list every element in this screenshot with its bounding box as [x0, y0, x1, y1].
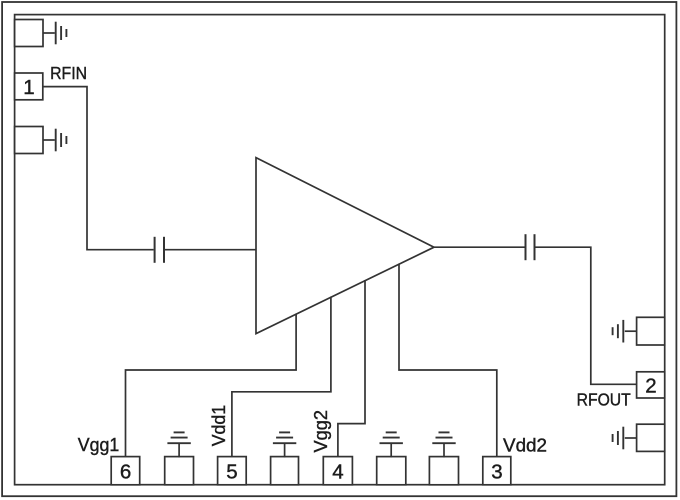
svg-text:3: 3 — [491, 460, 502, 483]
ground pad bottom 1 — [165, 457, 194, 485]
ground symbol (left-pointing) for upper-right pad — [613, 320, 624, 343]
pad 2 (RFOUT pin) — [637, 372, 665, 398]
wire amplifier output to capacitor C2 — [434, 246, 525, 248]
ground symbol (right-pointing) for top-left pad — [56, 22, 67, 45]
pad 6 (Vgg1 pin) — [111, 457, 140, 485]
svg-text:Vgg1: Vgg1 — [78, 435, 120, 455]
ground symbol above bottom pad 4 — [432, 432, 455, 457]
ground symbol above bottom pad 2 — [273, 432, 296, 457]
capacitor C1 (input DC block) — [155, 237, 164, 263]
ground pad mid-left — [15, 127, 55, 154]
capacitor C2 (output DC block) — [526, 234, 535, 260]
svg-text:Vdd2: Vdd2 — [503, 436, 547, 456]
wire capacitor C2 to pad 2 — [536, 247, 637, 384]
wire amplifier bias to pad 4 — [338, 280, 365, 457]
svg-text:1: 1 — [23, 76, 34, 99]
svg-text:2: 2 — [645, 374, 656, 397]
ground pad bottom 4 — [429, 457, 458, 485]
wire amplifier bias to pad 6 — [126, 314, 297, 457]
ground pad top-left — [15, 20, 55, 47]
svg-text:6: 6 — [120, 460, 131, 483]
wire pin1 to input capacitor — [43, 87, 154, 250]
amplifier A1 — [256, 158, 434, 334]
wire capacitor C1 to amplifier input — [165, 249, 256, 251]
ground pad bottom 3 — [377, 457, 406, 485]
pad 5 (Vdd1 pin) — [218, 457, 247, 485]
pad 4 (Vgg2 pin) — [323, 457, 352, 485]
svg-text:Vgg2: Vgg2 — [311, 410, 331, 453]
svg-text:RFOUT: RFOUT — [577, 389, 631, 409]
ground symbol above bottom pad 1 — [167, 432, 190, 457]
pad 1 (RFIN pin) — [15, 73, 43, 100]
ground symbol above bottom pad 3 — [380, 432, 403, 457]
svg-text:Vdd1: Vdd1 — [209, 405, 229, 447]
ground symbol (right-pointing) for mid-left pad — [56, 129, 67, 152]
svg-text:5: 5 — [226, 460, 237, 483]
ground pad bottom 2 — [271, 457, 299, 485]
wire amplifier bias to pad 3 — [399, 264, 497, 457]
pad 3 (Vdd2 pin) — [483, 457, 511, 485]
svg-text:RFIN: RFIN — [50, 63, 87, 83]
ground symbol (left-pointing) for lower-right pad — [613, 427, 624, 450]
wire amplifier bias to pad 5 — [232, 297, 331, 457]
ground pad upper-right — [625, 317, 665, 345]
svg-text:4: 4 — [332, 460, 343, 483]
ground pad lower-right — [625, 424, 665, 451]
